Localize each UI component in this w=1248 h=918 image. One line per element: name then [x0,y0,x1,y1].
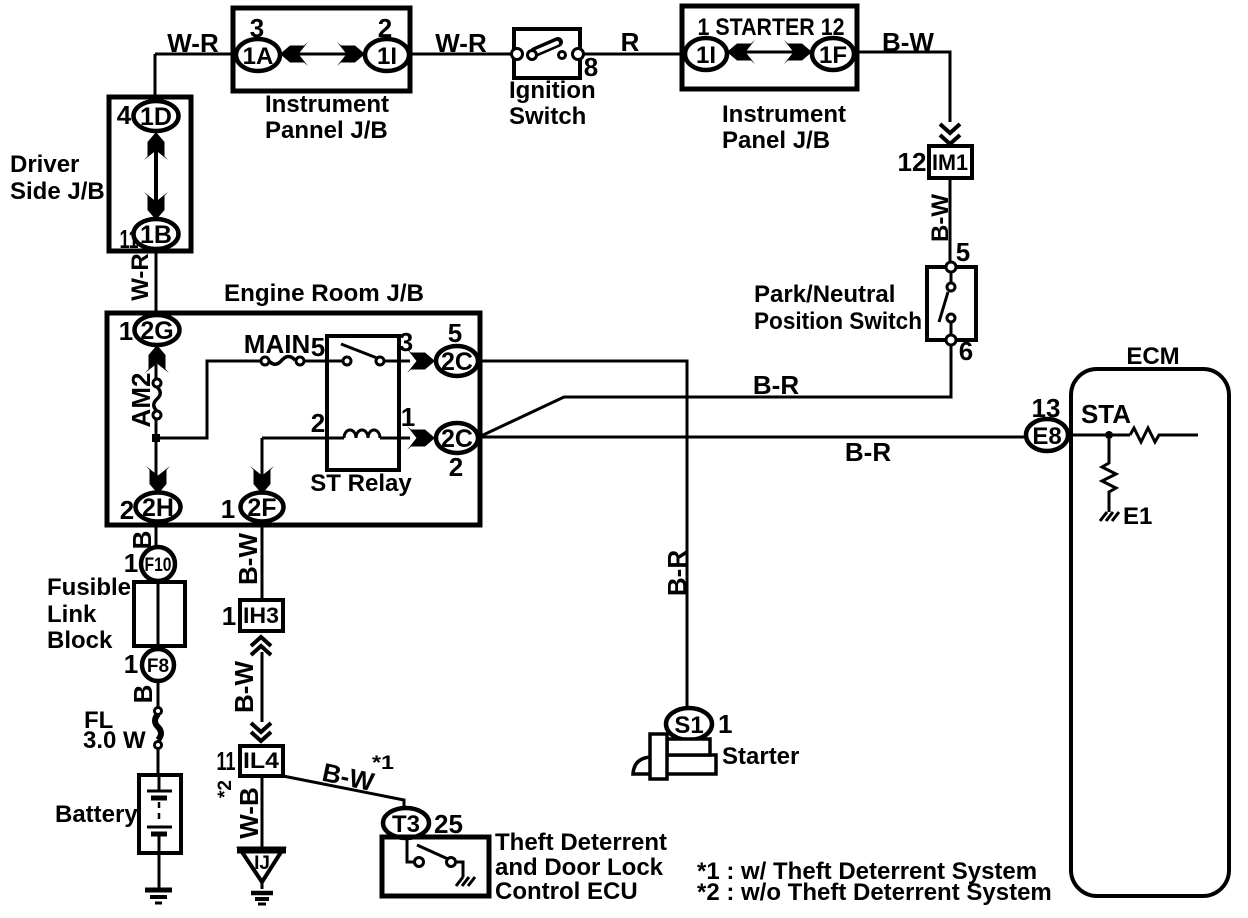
svg-text:*2: *2 [215,780,236,798]
svg-text:W-R: W-R [127,253,154,301]
svg-text:2: 2 [378,13,392,43]
svg-text:*1: *1 [372,753,395,774]
svg-text:Driver: Driver [10,151,79,178]
svg-text:3.0 W: 3.0 W [83,727,146,754]
svg-text:2: 2 [120,495,134,525]
svg-text:1I: 1I [696,42,716,69]
svg-text:STA: STA [1081,399,1131,429]
svg-text:Position Switch: Position Switch [754,308,922,335]
svg-text:6: 6 [959,336,973,366]
svg-text:5: 5 [956,237,970,267]
svg-text:1: 1 [718,709,732,739]
svg-text:1I: 1I [377,43,397,70]
svg-text:Link: Link [47,601,97,628]
svg-text:Theft Deterrent: Theft Deterrent [495,829,667,856]
svg-text:F10: F10 [145,555,172,576]
svg-text:1B: 1B [140,221,172,249]
svg-text:F8: F8 [147,656,169,677]
svg-text:2C: 2C [441,425,473,453]
svg-text:Switch: Switch [509,103,586,130]
svg-text:1A: 1A [243,43,274,70]
svg-text:IJ: IJ [254,853,270,874]
svg-text:3: 3 [250,13,264,43]
svg-text:S1: S1 [674,712,703,739]
svg-text:1D: 1D [140,103,172,131]
svg-text:Block: Block [47,627,113,654]
svg-text:Battery: Battery [55,801,138,828]
svg-text:E8: E8 [1032,423,1061,450]
svg-text:2C: 2C [441,348,473,376]
svg-text:B-W: B-W [882,27,934,57]
svg-text:1: 1 [124,649,138,679]
svg-text:ST Relay: ST Relay [310,470,412,497]
svg-text:IL4: IL4 [243,748,280,773]
svg-text:MAIN: MAIN [244,329,310,359]
svg-text:IH3: IH3 [243,603,279,628]
svg-text:and Door Lock: and Door Lock [495,854,664,881]
svg-text:Panel J/B: Panel J/B [722,127,830,154]
svg-text:T3: T3 [392,811,420,838]
svg-text:2G: 2G [140,317,173,345]
svg-text:1: 1 [119,316,133,346]
svg-text:R: R [621,27,640,57]
svg-text:B-W: B-W [233,533,263,585]
svg-text:1: 1 [222,601,236,631]
svg-text:Pannel J/B: Pannel J/B [265,117,388,144]
svg-text:2H: 2H [142,494,174,522]
svg-text:Instrument: Instrument [265,91,389,118]
svg-text:AM2: AM2 [126,373,156,428]
svg-text:IM1: IM1 [932,150,968,175]
svg-text:1: 1 [401,402,415,432]
svg-text:4: 4 [117,100,132,130]
svg-text:11: 11 [217,746,236,776]
svg-text:W-B: W-B [234,787,264,838]
svg-text:1: 1 [221,494,235,524]
svg-text:Control ECU: Control ECU [495,878,638,905]
svg-text:B-R: B-R [753,370,799,400]
svg-text:Fusible: Fusible [47,574,131,601]
svg-text:Ignition: Ignition [509,77,596,104]
svg-text:Instrument: Instrument [722,101,846,128]
svg-text:1F: 1F [819,42,847,69]
svg-text:B: B [128,685,158,704]
svg-text:5: 5 [448,318,462,348]
svg-text:2: 2 [449,452,463,482]
svg-text:B-W: B-W [229,661,259,713]
svg-text:5: 5 [311,332,325,362]
svg-text:W-R: W-R [435,28,487,58]
svg-text:2F: 2F [247,494,276,522]
svg-text:Park/Neutral: Park/Neutral [754,281,895,308]
svg-text:*2 : w/o Theft Deterrent Syste: *2 : w/o Theft Deterrent System [697,879,1052,906]
svg-text:11: 11 [120,224,139,254]
svg-text:E1: E1 [1123,503,1152,530]
svg-text:Starter: Starter [722,743,799,770]
svg-text:Side J/B: Side J/B [10,178,105,205]
svg-text:12: 12 [898,147,927,177]
svg-text:B-R: B-R [662,550,692,596]
svg-text:13: 13 [1032,393,1061,423]
svg-text:B-R: B-R [845,437,891,467]
svg-text:W-R: W-R [167,28,219,58]
svg-text:B-W: B-W [927,194,954,242]
svg-text:2: 2 [311,408,325,438]
svg-text:Engine Room J/B: Engine Room J/B [224,280,424,307]
svg-text:ECM: ECM [1126,343,1179,370]
svg-text:1 STARTER 12: 1 STARTER 12 [698,14,845,41]
